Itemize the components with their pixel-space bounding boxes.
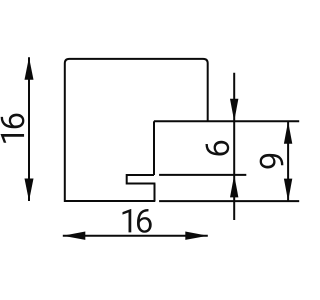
arrowhead 6 top (points down at insert top) (230, 99, 238, 122)
label 6 (rotated) (206, 141, 230, 156)
insert bottom edge (159, 200, 299, 202)
label 16 bottom (122, 209, 151, 233)
profile body outline (16x16 moulding) (65, 59, 208, 201)
dimension line bottom 16 (63, 235, 208, 237)
slot (groove) in profile (127, 175, 156, 201)
arrowhead 9 top (points up) (284, 121, 292, 144)
arrowhead 9 bottom (points down) (284, 179, 292, 202)
arrowhead left16 bottom (points down) (25, 179, 34, 202)
arrowhead bottom16 right (points right) (185, 232, 208, 240)
insert top edge (154, 120, 299, 122)
arrowhead bottom16 left (points left) (63, 232, 86, 240)
label 16 left (rotated) (1, 114, 25, 143)
insert mid edge (159, 174, 246, 176)
dimension line 6 (233, 73, 235, 220)
tab right edge above slot (153, 121, 155, 175)
dimension line left 16 (28, 57, 30, 201)
arrowhead left16 top (points up) (25, 57, 34, 80)
label 9 (rotated) (260, 154, 284, 169)
arrowhead 6 bottom (points up at mid line) (230, 175, 238, 198)
dimension line 9 (287, 121, 289, 201)
